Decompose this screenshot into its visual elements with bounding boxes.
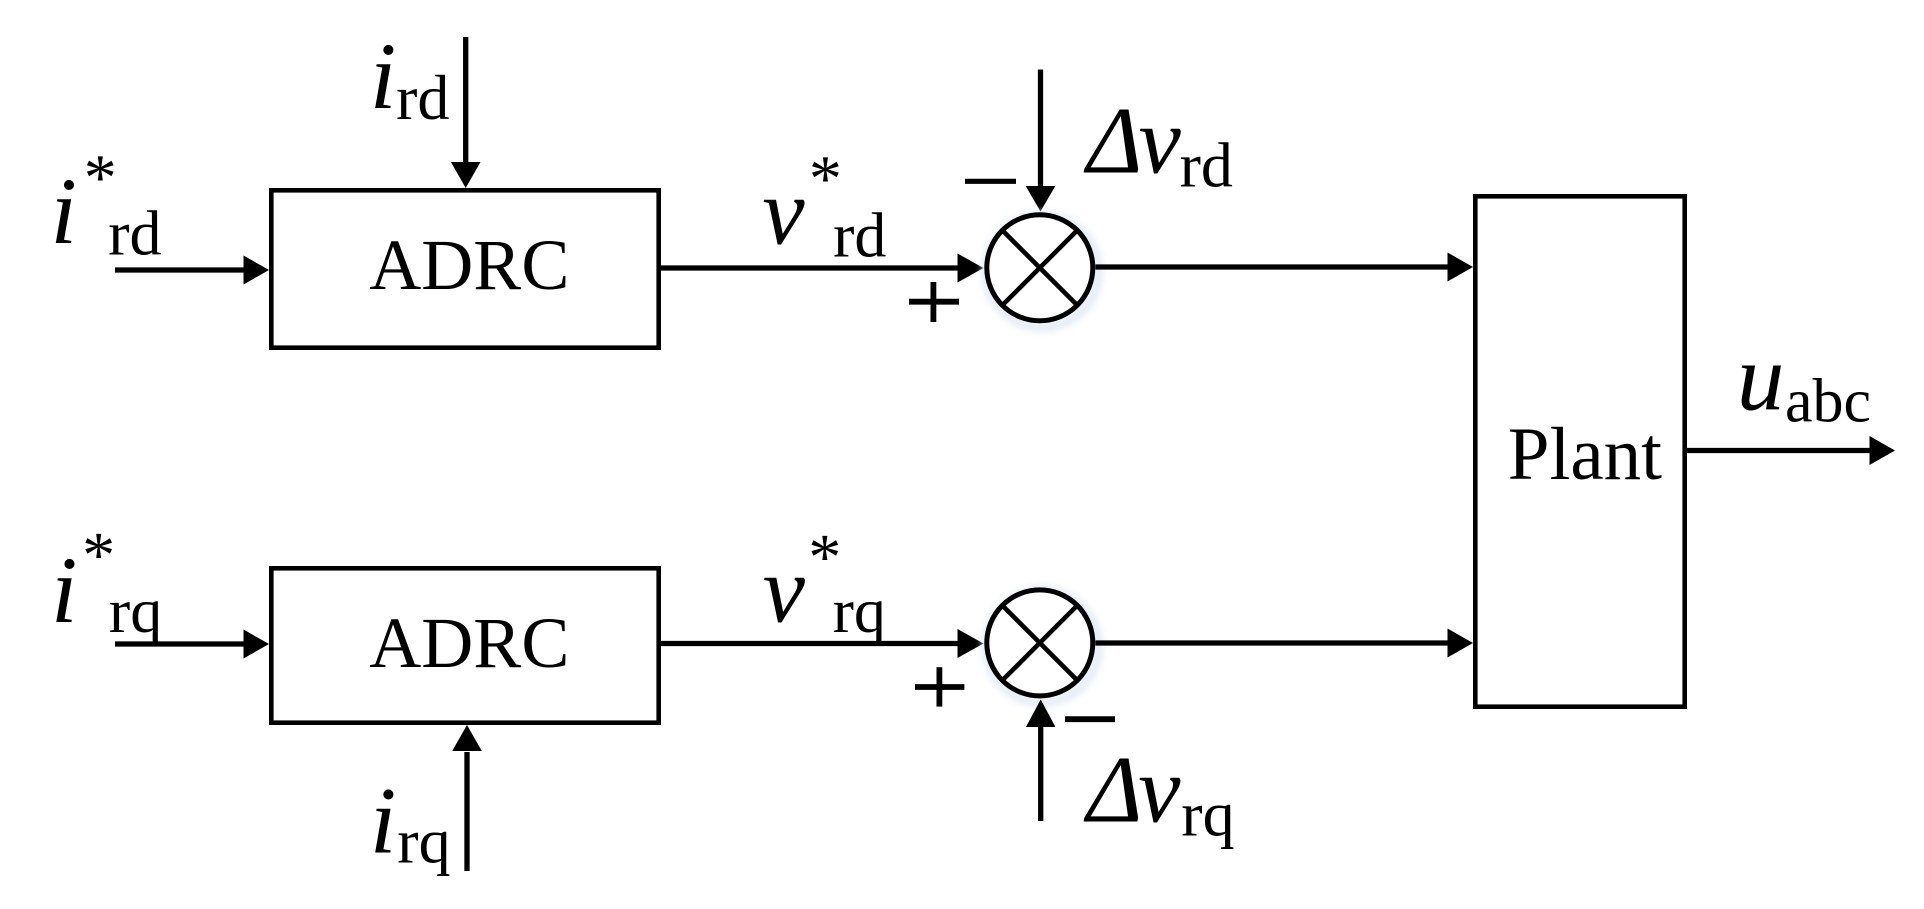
block Plant xyxy=(1475,196,1684,706)
svg-text:rq: rq xyxy=(109,575,162,646)
plus sign at S2 xyxy=(915,667,964,706)
svg-text:rd: rd xyxy=(833,200,886,271)
svg-text:rq: rq xyxy=(397,806,450,877)
minus sign at S2 xyxy=(1065,716,1115,722)
summing junction S1 (circled cross) xyxy=(986,215,1098,328)
block ADRC U2 xyxy=(271,568,658,722)
label ird feedback input xyxy=(370,23,450,133)
svg-text:v: v xyxy=(763,537,806,643)
label v*rd xyxy=(762,143,886,271)
svg-text:Δ: Δ xyxy=(1083,88,1143,194)
minus sign at S1 xyxy=(965,179,1016,184)
block ADRC U1 xyxy=(271,190,658,347)
svg-text:v: v xyxy=(762,159,805,265)
svg-text:u: u xyxy=(1737,325,1785,431)
svg-text:abc: abc xyxy=(1785,368,1871,436)
wire S1 to Plant with arrowhead xyxy=(1096,253,1474,282)
wire S2 to Plant with arrowhead xyxy=(1096,629,1474,658)
label irq feedback input xyxy=(370,768,451,877)
svg-text:ADRC: ADRC xyxy=(369,225,569,305)
svg-text:v: v xyxy=(1139,88,1182,194)
wire ADRC2 output to summing junction S2 with arrowhead xyxy=(661,629,984,658)
wire Delta-v-rd down into S1 with arrowhead xyxy=(1026,70,1056,212)
label Delta-v-rq disturbance xyxy=(1083,737,1235,850)
label uabc output xyxy=(1737,325,1871,436)
summing junction S2 (circled cross) xyxy=(986,590,1098,703)
svg-text:Plant: Plant xyxy=(1508,413,1662,496)
wire i*rd into ADRC1 with arrowhead xyxy=(115,256,269,285)
svg-text:i: i xyxy=(51,537,77,643)
label v*rq xyxy=(763,521,886,646)
svg-text:i: i xyxy=(370,768,396,874)
wire Plant output uabc with arrowhead xyxy=(1687,436,1895,465)
wire ADRC1 output to summing junction S1 with arrowhead xyxy=(661,254,984,283)
wire i*rq into ADRC2 with arrowhead xyxy=(115,630,269,659)
wire irq up into ADRC2 bottom with arrowhead xyxy=(452,725,482,871)
svg-text:rd: rd xyxy=(396,62,449,133)
plus sign at S1 xyxy=(909,282,959,322)
label Delta-v-rd disturbance xyxy=(1083,88,1233,201)
label i*rq reference input xyxy=(51,519,162,646)
svg-text:rd: rd xyxy=(1180,129,1233,200)
svg-text:i: i xyxy=(370,23,396,129)
label i*rd reference input xyxy=(51,141,162,268)
svg-text:rq: rq xyxy=(1181,779,1234,850)
svg-text:rq: rq xyxy=(833,575,886,646)
wire ird down into ADRC1 top with arrowhead xyxy=(451,37,481,188)
svg-text:Δ: Δ xyxy=(1083,737,1143,843)
svg-text:i: i xyxy=(51,158,77,264)
svg-text:ADRC: ADRC xyxy=(369,603,569,683)
svg-text:v: v xyxy=(1138,737,1181,843)
svg-text:rd: rd xyxy=(108,197,161,268)
wire Delta-v-rq up into S2 with arrowhead xyxy=(1026,700,1056,822)
